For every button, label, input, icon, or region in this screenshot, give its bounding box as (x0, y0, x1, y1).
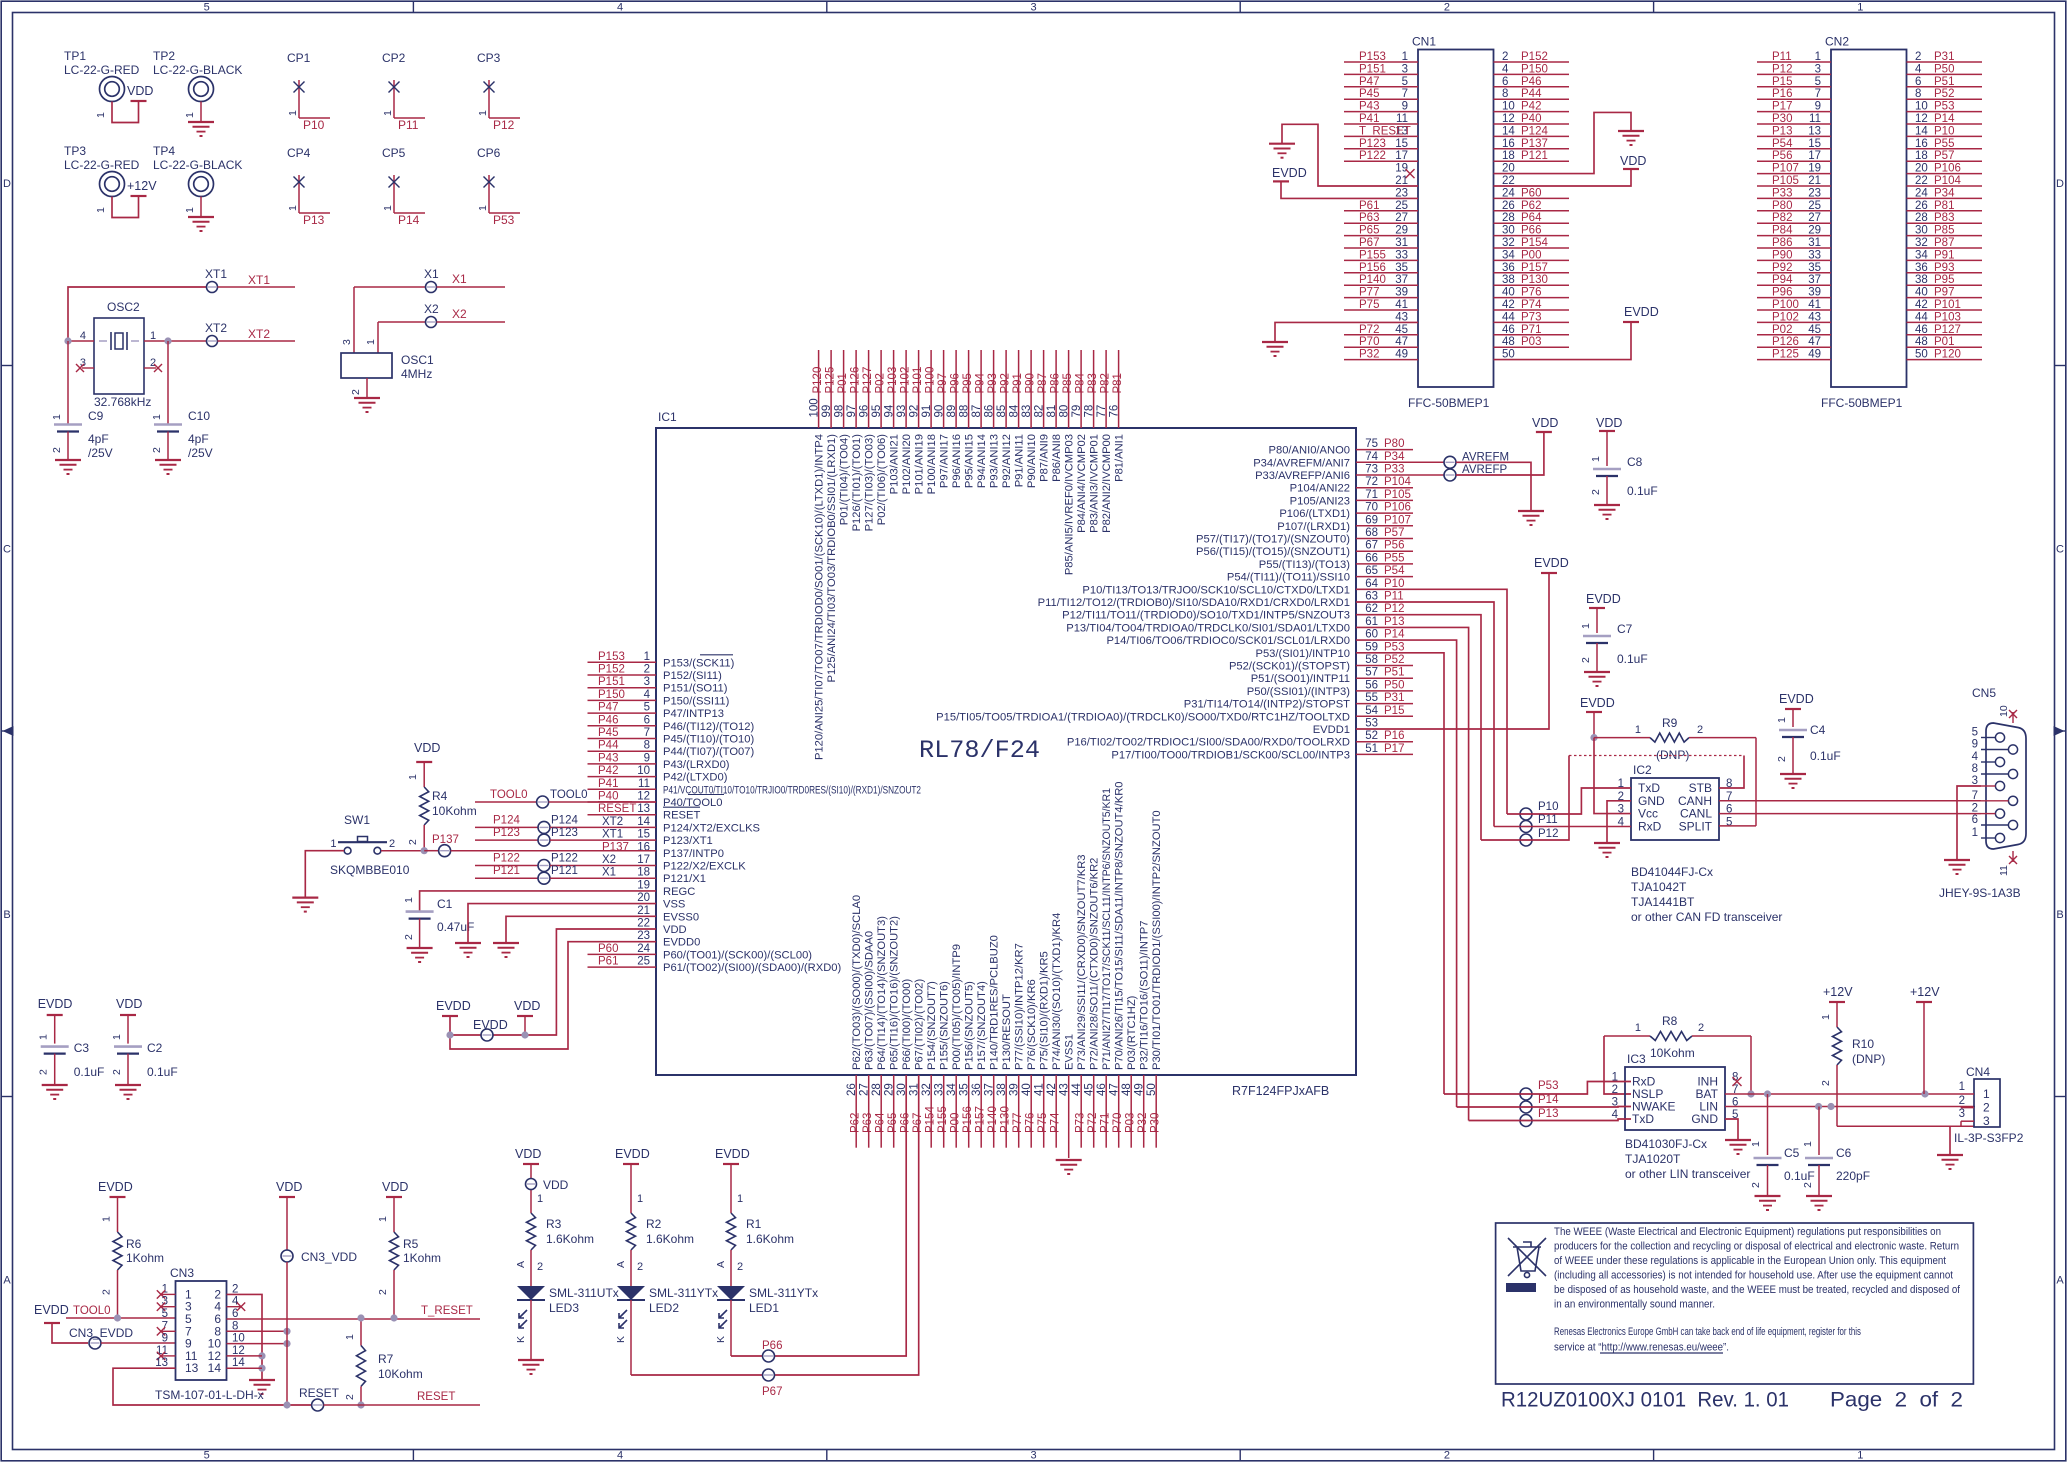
svg-text:P17/TI00/TO00/TRDIOB1/SCK00/SC: P17/TI00/TO00/TRDIOB1/SCK00/SCL00/INTP3 (1111, 749, 1350, 761)
svg-text:32: 32 (1915, 237, 1928, 249)
ground C4 (1780, 773, 1806, 775)
svg-text:4: 4 (644, 689, 651, 701)
svg-text:CN5: CN5 (1972, 686, 1996, 700)
svg-text:P92: P92 (1772, 262, 1792, 274)
svg-text:be disposed of as household wa: be disposed of as household waste, and t… (1554, 1284, 1961, 1296)
svg-text:P130: P130 (1521, 274, 1548, 286)
svg-text:47: 47 (1808, 336, 1821, 348)
wire LIN line (1725, 1106, 1975, 1108)
svg-text:P86: P86 (1772, 237, 1792, 249)
centre marker arrows (3, 726, 14, 736)
oscillator OSC1 (353, 287, 355, 353)
svg-text:VDD: VDD (1596, 416, 1622, 430)
svg-text:TJA1020T: TJA1020T (1625, 1152, 1681, 1166)
svg-text:P76/(SCK10)/KR6: P76/(SCK10)/KR6 (1026, 979, 1038, 1070)
node P14 tie IC3 (1520, 1101, 1532, 1113)
svg-text:P101/ANI19: P101/ANI19 (914, 434, 926, 494)
svg-text:2: 2 (1502, 51, 1508, 63)
svg-text:93: 93 (896, 405, 908, 418)
svg-text:34: 34 (946, 1083, 958, 1096)
svg-text:P03: P03 (1125, 1113, 1137, 1133)
svg-text:OSC2: OSC2 (107, 300, 140, 314)
svg-text:P81: P81 (1112, 373, 1124, 393)
svg-text:P44: P44 (1521, 88, 1542, 100)
svg-text:P155: P155 (937, 1106, 949, 1133)
svg-text:1: 1 (1972, 827, 1978, 839)
wire EVDD0 pin23 loop (450, 942, 656, 1049)
wire CN1 pin21 to ground (1282, 124, 1418, 186)
svg-text:83: 83 (1021, 405, 1033, 418)
svg-text:P63: P63 (862, 1113, 874, 1133)
svg-text:IC2: IC2 (1633, 763, 1652, 777)
svg-text:51: 51 (1365, 743, 1378, 755)
svg-text:P32/TI16/TO16/(SO11)/INTP7: P32/TI16/TO16/(SO11)/INTP7 (1139, 921, 1151, 1070)
svg-text:P12: P12 (1538, 828, 1558, 840)
svg-text:62: 62 (1365, 603, 1378, 615)
svg-text:35: 35 (959, 1083, 971, 1096)
svg-text:TJA1042T: TJA1042T (1631, 880, 1687, 894)
svg-text:13: 13 (1808, 125, 1821, 137)
svg-text:P60: P60 (598, 943, 618, 955)
svg-text:P83: P83 (1934, 212, 1954, 224)
svg-text:P126: P126 (1772, 336, 1799, 348)
svg-text:50: 50 (1915, 349, 1928, 361)
svg-text:79: 79 (1071, 405, 1083, 418)
svg-text:P53: P53 (1384, 641, 1404, 653)
svg-text:P90: P90 (1772, 249, 1792, 261)
svg-text:4pF: 4pF (88, 432, 109, 446)
svg-text:TSM-107-01-L-DH-x: TSM-107-01-L-DH-x (155, 1388, 264, 1402)
svg-text:6: 6 (1502, 76, 1508, 88)
svg-text:P96: P96 (950, 373, 962, 393)
wire P53 long (1356, 653, 1444, 1094)
svg-text:45: 45 (1808, 324, 1821, 336)
svg-text:P102: P102 (900, 367, 912, 394)
svg-text:0.1uF: 0.1uF (74, 1065, 105, 1079)
svg-text:77: 77 (1096, 405, 1108, 418)
svg-text:65: 65 (1365, 565, 1378, 577)
svg-text:P122: P122 (493, 853, 520, 865)
svg-text:P11: P11 (1772, 51, 1792, 63)
wire CN3 pin6 T_RESET line (227, 1318, 481, 1320)
svg-text:2: 2 (38, 1069, 50, 1075)
svg-text:27: 27 (1808, 212, 1821, 224)
svg-text:SML-311YTx: SML-311YTx (649, 1286, 718, 1300)
svg-text:15: 15 (637, 829, 650, 841)
IC1 pin 96 P127 (868, 350, 870, 428)
svg-text:P54: P54 (1772, 138, 1793, 150)
svg-text:P00: P00 (1521, 249, 1541, 261)
svg-text:41: 41 (1808, 299, 1821, 311)
svg-text:0.1uF: 0.1uF (1627, 484, 1658, 498)
ground C7 (1584, 671, 1610, 673)
svg-text:2: 2 (1444, 2, 1450, 14)
svg-text:1: 1 (382, 205, 394, 211)
svg-text:P101: P101 (912, 367, 924, 394)
svg-text:41: 41 (1034, 1083, 1046, 1096)
svg-text:P77/(SSI10)/INTP12/KR7: P77/(SSI10)/INTP12/KR7 (1014, 943, 1026, 1070)
svg-text:P76: P76 (1521, 287, 1541, 299)
ground CN4 (1937, 1154, 1963, 1156)
svg-text:P97: P97 (937, 373, 949, 393)
svg-text:P86/ANI8: P86/ANI8 (1051, 434, 1063, 482)
svg-text:5: 5 (644, 702, 650, 714)
svg-text:61: 61 (1365, 616, 1378, 628)
svg-text:P71/ANI27/TI17/TO17/SCK11/SCL1: P71/ANI27/TI17/TO17/SCK11/SCL11/INTP6/SN… (1101, 788, 1113, 1070)
svg-text:25: 25 (1395, 200, 1408, 212)
ground C1 (407, 947, 433, 949)
svg-text:14: 14 (1502, 125, 1515, 137)
LED LED3 SML-311UTx (517, 1286, 545, 1300)
svg-text:C: C (3, 544, 11, 556)
svg-text:P107/(LRXD1): P107/(LRXD1) (1277, 521, 1350, 533)
svg-text:P47: P47 (1359, 76, 1379, 88)
svg-text:8: 8 (1915, 88, 1921, 100)
svg-text:33: 33 (1808, 249, 1821, 261)
svg-text:P14: P14 (1934, 113, 1955, 125)
CN5 pin 5 (1995, 733, 2004, 742)
wire P10 long (1356, 589, 1507, 814)
CN3 pin4 nc (227, 1306, 243, 1308)
svg-text:P17: P17 (1384, 743, 1404, 755)
svg-text:P73/ANI29/SSI11/(CRXD0)/SNZOUT: P73/ANI29/SSI11/(CRXD0)/SNZOUT7/KR3 (1076, 854, 1088, 1070)
svg-text:P80/ANI0/ANO0: P80/ANI0/ANO0 (1269, 445, 1350, 457)
svg-text:91: 91 (921, 405, 933, 418)
CN5 pin 2 (1995, 809, 2004, 818)
svg-text:R6: R6 (126, 1237, 142, 1251)
svg-text:8: 8 (644, 740, 650, 752)
ground CN1 left upper (1269, 143, 1295, 145)
svg-text:P103: P103 (887, 367, 899, 394)
svg-text:P120/ANI25/TI07/TO07/TRDIOD0/S: P120/ANI25/TI07/TO07/TRDIOD0/SO01/(SCK10… (814, 434, 826, 760)
svg-text:P71: P71 (1521, 324, 1541, 336)
svg-text:92: 92 (909, 405, 921, 418)
svg-text:38: 38 (996, 1083, 1008, 1096)
node AVREFM tie (1444, 456, 1456, 468)
svg-text:48: 48 (1121, 1083, 1133, 1096)
IC1 pin 40 P76/(SCK10)/KR6 (1030, 1075, 1032, 1148)
svg-text:TxD: TxD (1632, 1112, 1654, 1126)
svg-text:LED3: LED3 (549, 1301, 579, 1315)
svg-text:57: 57 (1365, 667, 1378, 679)
svg-text:P13: P13 (1772, 125, 1792, 137)
svg-text:2: 2 (1972, 803, 1978, 815)
svg-text:P71: P71 (1100, 1113, 1112, 1133)
svg-text:P92: P92 (1000, 373, 1012, 393)
svg-text:service at “http://www.renesas: service at “http://www.renesas.eu/weee”. (1554, 1342, 1729, 1354)
svg-text:2: 2 (350, 389, 362, 395)
svg-text:P14: P14 (398, 213, 420, 227)
svg-text:66: 66 (1365, 552, 1378, 564)
wire P66 pin30 to LED1 (731, 1075, 906, 1356)
svg-text:P43: P43 (598, 752, 618, 764)
svg-text:98: 98 (834, 405, 846, 418)
svg-text:of WEEE under these regulation: of WEEE under these regulations is appli… (1554, 1255, 1946, 1267)
svg-text:1: 1 (644, 651, 650, 663)
svg-text:EVDD: EVDD (34, 1303, 69, 1317)
svg-text:5: 5 (1972, 727, 1978, 739)
svg-text:or other CAN FD transceiver: or other CAN FD transceiver (1631, 910, 1782, 924)
svg-text:P125/ANI24/TI03/TO03/TRDIOB0/S: P125/ANI24/TI03/TO03/TRDIOB0/SSI01/(LRXD… (826, 434, 838, 683)
node P53 tie IC3 (1520, 1088, 1532, 1100)
svg-text:45: 45 (1395, 324, 1408, 336)
svg-text:58: 58 (1365, 654, 1378, 666)
svg-text:VDD: VDD (382, 1180, 408, 1194)
svg-text:P43: P43 (1359, 101, 1379, 113)
WEEE notice box (1496, 1223, 1974, 1384)
svg-text:P74/ANI30/(SO10)/(TXD1)/KR4: P74/ANI30/(SO10)/(TXD1)/KR4 (1051, 913, 1063, 1070)
svg-text:P62: P62 (1521, 200, 1541, 212)
svg-text:P93/ANI13: P93/ANI13 (989, 434, 1001, 488)
svg-text:P72/ANI28/SO11/(CTXD0)/SNZOUT6: P72/ANI28/SO11/(CTXD0)/SNZOUT6/KR2 (1089, 858, 1101, 1070)
wire AVREFP net P33 (1356, 474, 1444, 476)
svg-text:47: 47 (1109, 1083, 1121, 1096)
svg-text:13: 13 (185, 1361, 199, 1375)
svg-text:4: 4 (1915, 63, 1922, 75)
svg-text:P156: P156 (1359, 262, 1386, 274)
svg-text:LC-22-G-RED: LC-22-G-RED (64, 63, 140, 77)
svg-text:2: 2 (1820, 1080, 1832, 1086)
svg-text:P150: P150 (598, 689, 625, 701)
svg-text:43: 43 (1059, 1083, 1071, 1096)
svg-text:C8: C8 (1627, 455, 1643, 469)
wire IC3 GND pin5 to ground (1725, 1119, 1738, 1140)
svg-text:16: 16 (1915, 138, 1928, 150)
svg-text:IL-3P-S3FP2: IL-3P-S3FP2 (1954, 1131, 2024, 1145)
svg-text:10: 10 (637, 765, 650, 777)
svg-text:R7F124FPJxAFB: R7F124FPJxAFB (1232, 1084, 1329, 1098)
svg-text:P120: P120 (812, 367, 824, 394)
svg-text:FFC-50BMEP1: FFC-50BMEP1 (1821, 396, 1903, 410)
svg-text:10Kohm: 10Kohm (432, 804, 477, 818)
node P67 tie (763, 1369, 775, 1381)
IC1 pin 43 EVSS1 (1068, 1075, 1070, 1158)
IC1 pin 83 P90 (1030, 350, 1032, 428)
svg-text:1: 1 (1857, 1450, 1863, 1462)
svg-text:31: 31 (1808, 237, 1821, 249)
svg-text:P75: P75 (1359, 299, 1379, 311)
svg-text:P42/(LTXD0): P42/(LTXD0) (663, 772, 728, 784)
svg-text:19: 19 (1808, 163, 1821, 175)
wire SW1 to ground (305, 851, 344, 898)
svg-text:P94/ANI14: P94/ANI14 (976, 434, 988, 488)
svg-text:P33/AVREFP/ANI6: P33/AVREFP/ANI6 (1255, 470, 1350, 482)
IC1 pin 38 P130/RESOUT (1005, 1075, 1007, 1148)
ground C8 (1594, 504, 1620, 506)
resistor R8 10Kohm (1604, 1035, 1650, 1037)
svg-text:37: 37 (1395, 274, 1408, 286)
svg-text:35: 35 (1808, 262, 1821, 274)
IC1 pin 42 P74/ANI30/(SO10)/(TXD1)/KR4 (1055, 1075, 1057, 1148)
svg-text:4: 4 (1502, 63, 1509, 75)
svg-text:1: 1 (377, 1216, 389, 1222)
svg-text:89: 89 (946, 405, 958, 418)
svg-text:X2: X2 (424, 302, 439, 316)
node EVDD junction R9 (1590, 734, 1597, 741)
svg-text:11: 11 (1809, 113, 1821, 125)
svg-text:P121: P121 (493, 865, 520, 877)
svg-text:P153: P153 (1359, 51, 1386, 63)
svg-text:P56/(TI15)/(TO15)/(SNZOUT1): P56/(TI15)/(TO15)/(SNZOUT1) (1196, 546, 1350, 558)
svg-text:P41: P41 (1359, 113, 1379, 125)
svg-text:P75: P75 (1037, 1113, 1049, 1133)
svg-text:27: 27 (859, 1083, 871, 1096)
svg-text:P140: P140 (1359, 274, 1386, 286)
svg-text:P46: P46 (598, 714, 618, 726)
overbar SCK11 (700, 654, 733, 656)
svg-text:2: 2 (1959, 1095, 1965, 1107)
svg-text:P156/(SNZOUT5): P156/(SNZOUT5) (964, 981, 976, 1070)
svg-text:94: 94 (884, 404, 896, 417)
svg-text:P95: P95 (1934, 274, 1954, 286)
wire CN1 pin50 to EVDD (1494, 322, 1632, 360)
svg-text:11: 11 (638, 778, 650, 790)
svg-text:P101: P101 (1934, 299, 1961, 311)
svg-text:EVDD1: EVDD1 (1313, 724, 1350, 736)
svg-text:TP1: TP1 (64, 49, 86, 63)
ground CN5 (1944, 859, 1970, 861)
wire CANH to CN5 pin7 (1719, 800, 1981, 802)
svg-text:8: 8 (1502, 88, 1508, 100)
IC1 pin 86 P93 (993, 350, 995, 428)
svg-text:2: 2 (737, 1261, 743, 1273)
wire P53 to RxD (1444, 1082, 1631, 1095)
svg-text:P81/ANI1: P81/ANI1 (1114, 434, 1126, 482)
svg-text:0.1uF: 0.1uF (1617, 652, 1648, 666)
svg-text:P87: P87 (1037, 373, 1049, 393)
svg-text:1: 1 (1983, 1087, 1990, 1101)
svg-text:24: 24 (1915, 187, 1928, 199)
svg-text:P91: P91 (1934, 249, 1954, 261)
svg-text:C6: C6 (1836, 1146, 1852, 1160)
svg-text:P100: P100 (1772, 299, 1799, 311)
svg-text:25: 25 (1808, 200, 1821, 212)
WEEE bin icon (1508, 1238, 1546, 1278)
svg-text:RESET: RESET (417, 1391, 455, 1403)
svg-text:RESET: RESET (663, 810, 700, 822)
svg-text:P13: P13 (303, 213, 325, 227)
CN5 pin 6 (2008, 820, 2017, 829)
svg-text:32: 32 (921, 1083, 933, 1096)
node XT1 tie (207, 282, 218, 293)
svg-text:5: 5 (162, 1308, 168, 1320)
svg-text:P34: P34 (1384, 451, 1405, 463)
svg-text:1Kohm: 1Kohm (126, 1251, 164, 1265)
ground C10 (155, 459, 181, 461)
svg-text:P157: P157 (975, 1106, 987, 1133)
svg-text:P124: P124 (493, 814, 520, 826)
svg-text:P86: P86 (1050, 373, 1062, 393)
svg-text:P55: P55 (1384, 552, 1404, 564)
svg-text:P52: P52 (1384, 654, 1404, 666)
svg-text:44: 44 (1071, 1083, 1083, 1096)
svg-text:A: A (2056, 1275, 2064, 1287)
svg-text:P14/TI06/TO06/TRDIOC0/SCK01/SC: P14/TI06/TO06/TRDIOC0/SCK01/SCL01/LRXD0 (1106, 635, 1350, 647)
svg-text:P67/(TI02)/(TO02): P67/(TI02)/(TO02) (914, 979, 926, 1070)
svg-text:P12: P12 (493, 118, 515, 132)
IC1 pin 29 P65/(TI16)/(TO16)/(SNZOUT2) (893, 1075, 895, 1148)
svg-text:P31: P31 (1384, 692, 1404, 704)
svg-text:LED1: LED1 (749, 1301, 779, 1315)
svg-text:P70/ANI26/TI15/TO15/SI11/SDA11: P70/ANI26/TI15/TO15/SI11/SDA11/INTP8/SNZ… (1114, 781, 1126, 1070)
svg-text:81: 81 (1046, 405, 1058, 418)
svg-text:2: 2 (644, 664, 650, 676)
IC1 pin 90 P97 (943, 350, 945, 428)
IC1 pin 93 P102 (905, 350, 907, 428)
svg-text:P60/(TO01)/(SCK00)/(SCL00): P60/(TO01)/(SCK00)/(SCL00) (663, 949, 812, 961)
svg-text:76: 76 (1109, 405, 1121, 418)
svg-text:P13/TI04/TO04/TRDIOA0/TRDCLK0/: P13/TI04/TO04/TRDIOA0/TRDCLK0/SI01/SDA01… (1066, 622, 1350, 634)
IC1 pin 27 P63/(TO07)/(SSI00)/SDAA0 (868, 1075, 870, 1148)
svg-text:2: 2 (51, 447, 63, 453)
svg-text:P155: P155 (1359, 249, 1386, 261)
svg-text:P121: P121 (551, 865, 578, 877)
svg-text:BD41030FJ-Cx: BD41030FJ-Cx (1625, 1137, 1707, 1151)
svg-text:2: 2 (403, 934, 415, 940)
wire OSC2 pin4 (68, 340, 94, 342)
svg-text:47: 47 (1395, 336, 1408, 348)
svg-text:14: 14 (637, 816, 650, 828)
svg-text:29: 29 (884, 1083, 896, 1096)
svg-text:P01: P01 (837, 373, 849, 393)
svg-text:44: 44 (1915, 311, 1928, 323)
svg-text:P137: P137 (1521, 138, 1548, 150)
svg-text:74: 74 (1365, 451, 1378, 463)
IC1 pin 45 P72/ANI28/SO11/(CTXD0)/SNZOUT6/KR2 (1093, 1075, 1095, 1148)
svg-text:4: 4 (617, 2, 623, 14)
wire CN3 pin8 to CN3_VDD rail (227, 1330, 288, 1332)
svg-text:17: 17 (1395, 150, 1408, 162)
wire P12 long (1356, 615, 1481, 840)
svg-text:1: 1 (1815, 51, 1821, 63)
node X1 tie (354, 286, 425, 288)
svg-text:P56: P56 (1384, 540, 1404, 552)
svg-text:12: 12 (232, 1345, 245, 1357)
svg-text:7: 7 (1402, 88, 1408, 100)
svg-text:48: 48 (1915, 336, 1928, 348)
svg-text:5: 5 (204, 2, 210, 14)
wire P14 long (1356, 640, 1457, 1107)
svg-text:P63: P63 (1359, 212, 1379, 224)
svg-text:P02: P02 (875, 373, 887, 393)
svg-text:P93: P93 (987, 373, 999, 393)
svg-text:P10: P10 (1384, 578, 1404, 590)
svg-text:P56: P56 (1772, 150, 1792, 162)
svg-text:EVDD: EVDD (1580, 696, 1615, 710)
svg-text:36: 36 (1502, 262, 1515, 274)
svg-text:P53/(SI01)/INTP10: P53/(SI01)/INTP10 (1255, 648, 1350, 660)
wire CN3 pin14 (227, 1367, 263, 1369)
ground CN3 (249, 1379, 275, 1381)
svg-text:53: 53 (1365, 718, 1378, 730)
svg-text:3: 3 (1815, 63, 1821, 75)
overbar RESET function label (663, 806, 700, 808)
svg-text:220pF: 220pF (1836, 1169, 1870, 1183)
svg-text:59: 59 (1365, 641, 1378, 653)
svg-text:1: 1 (150, 330, 156, 342)
svg-text:P13: P13 (1538, 1108, 1558, 1120)
svg-text:TP3: TP3 (64, 144, 86, 158)
svg-text:RL78/F24: RL78/F24 (919, 736, 1040, 765)
svg-text:0.1uF: 0.1uF (147, 1065, 178, 1079)
svg-text:P150: P150 (1521, 63, 1548, 75)
svg-text:1: 1 (1635, 724, 1641, 736)
svg-text:P74: P74 (1050, 1112, 1062, 1133)
svg-text:LC-22-G-BLACK: LC-22-G-BLACK (153, 158, 242, 172)
svg-text:P92/ANI12: P92/ANI12 (1001, 434, 1013, 488)
ground CN1 right upper (1618, 130, 1644, 132)
node X2 tie (378, 321, 425, 323)
